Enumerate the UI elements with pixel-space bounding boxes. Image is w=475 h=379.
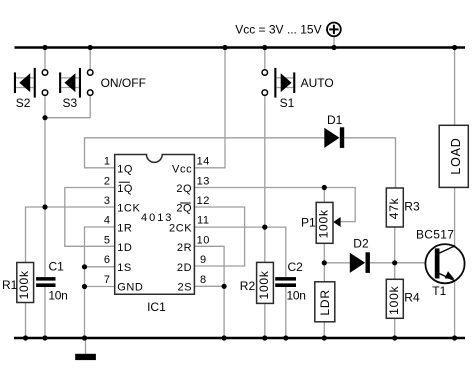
svg-text:2Q: 2Q [176,183,192,195]
svg-text:100k: 100k [257,270,271,299]
svg-text:8: 8 [200,274,207,286]
svg-text:100k: 100k [17,270,31,299]
svg-text:IC1: IC1 [147,300,166,314]
svg-text:1D: 1D [117,242,132,254]
svg-text:T1: T1 [432,284,446,298]
svg-text:12: 12 [197,195,210,207]
svg-text:LDR: LDR [318,289,332,315]
svg-text:7: 7 [104,274,110,286]
svg-text:2R: 2R [177,242,192,254]
svg-text:11: 11 [197,215,210,227]
svg-text:5: 5 [104,234,110,246]
svg-text:100k: 100k [387,285,401,314]
svg-text:S3: S3 [63,96,78,110]
svg-text:P1: P1 [301,215,316,229]
svg-text:3: 3 [104,195,110,207]
svg-text:AUTO: AUTO [301,76,334,90]
svg-text:Vcc: Vcc [172,163,192,175]
svg-text:4: 4 [104,215,110,227]
svg-text:2: 2 [104,175,110,187]
svg-text:2D: 2D [177,262,192,274]
svg-text:C2: C2 [288,260,304,274]
svg-text:6: 6 [104,254,110,266]
svg-text:10n: 10n [48,289,67,303]
svg-text:BC517: BC517 [416,228,454,242]
svg-text:100k: 100k [317,209,331,238]
svg-text:D1: D1 [327,113,343,127]
svg-text:14: 14 [197,156,210,168]
svg-text:GND: GND [117,282,143,294]
svg-text:Vcc = 3V ... 15V: Vcc = 3V ... 15V [235,23,321,37]
svg-text:10n: 10n [287,289,306,303]
svg-text:R3: R3 [404,199,420,213]
svg-text:10: 10 [197,234,210,246]
svg-text:D2: D2 [353,237,369,251]
svg-text:1: 1 [104,156,110,168]
svg-text:1Q: 1Q [117,183,133,195]
svg-text:S1: S1 [280,96,295,110]
svg-text:2S: 2S [178,282,193,294]
svg-text:LOAD: LOAD [449,137,463,174]
svg-text:ON/OFF: ON/OFF [101,76,146,90]
svg-text:1CK: 1CK [117,203,140,215]
svg-text:9: 9 [200,254,207,266]
svg-text:13: 13 [197,175,210,187]
svg-text:1R: 1R [117,222,132,234]
svg-text:2Q: 2Q [176,203,192,215]
svg-text:R1: R1 [2,278,18,292]
svg-text:C1: C1 [49,260,65,274]
svg-text:1S: 1S [117,262,132,274]
svg-text:47k: 47k [387,197,401,219]
svg-text:1Q: 1Q [117,163,133,175]
svg-text:2CK: 2CK [169,222,192,234]
svg-text:S2: S2 [16,96,31,110]
svg-text:R2: R2 [240,279,256,293]
svg-text:R4: R4 [404,291,420,305]
